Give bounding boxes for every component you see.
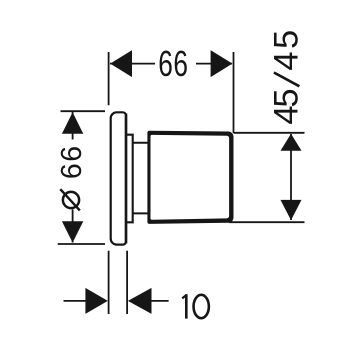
right dim: down arrowhead	[281, 200, 302, 220]
handle outer	[147, 131, 233, 224]
stem top line	[133, 142, 150, 144]
left dim: top extension line	[61, 110, 106, 112]
plate front face line	[125, 114, 128, 244]
left dim label diameter symbol circle	[63, 192, 79, 208]
right dim label slash	[274, 73, 300, 87]
bottom dim: right arrowhead (points left)	[128, 288, 152, 314]
svg-text:66: 66	[158, 43, 188, 84]
bottom dim right tail line	[150, 300, 169, 302]
left dim: up arrowhead	[62, 112, 83, 134]
top dim line right segment	[196, 63, 232, 65]
right dim: top extension line	[234, 132, 305, 134]
bottom dim label: digit 0	[194, 295, 209, 318]
handle inner (white)	[151, 135, 230, 220]
bottom dim: left extension line	[108, 251, 110, 314]
svg-text:45: 45	[268, 90, 306, 125]
top dim: right arrowhead	[211, 50, 233, 77]
bottom dim: right extension line	[126, 251, 128, 314]
stem bottom line	[133, 212, 150, 214]
hub sleeve	[126, 135, 133, 223]
bottom dim: left arrowhead (points right)	[85, 288, 107, 314]
bottom dim label: digit 1 stem	[185, 294, 188, 318]
right dim: bottom extension line	[229, 221, 305, 223]
left dim line upper segment	[72, 112, 74, 140]
wall plate (escutcheon)	[111, 112, 126, 244]
svg-text:66: 66	[56, 144, 88, 179]
left dim label diameter symbol slash	[60, 189, 80, 210]
bottom dim left tail line	[64, 300, 87, 302]
left dim: down arrowhead	[62, 221, 83, 242]
top dim: left extension line	[108, 52, 110, 105]
top dim: left arrowhead	[110, 50, 132, 77]
right dim: up arrowhead	[281, 134, 302, 151]
svg-text:45: 45	[268, 27, 306, 70]
left dim line lower segment	[72, 210, 74, 243]
top dim line left segment	[110, 63, 155, 65]
top dim: right extension line	[233, 52, 235, 133]
right dim line	[290, 134, 292, 220]
bottom dim label: digit 1 flag	[182, 295, 186, 299]
left dim: bottom extension line	[58, 243, 105, 245]
